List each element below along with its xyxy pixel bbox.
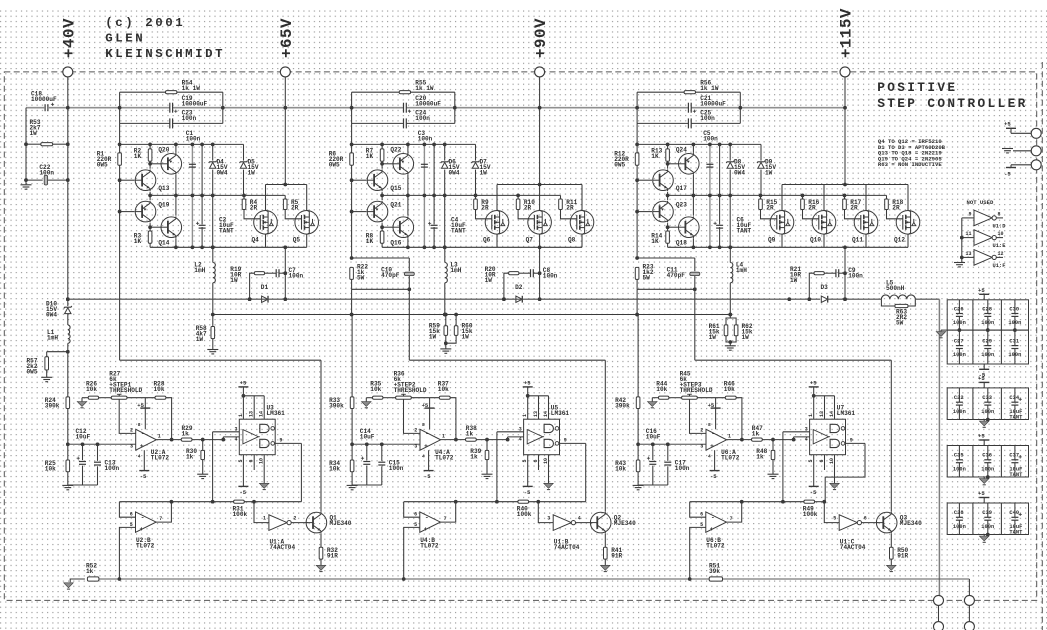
diode D1 <box>261 295 270 303</box>
potentiometer R27 <box>111 396 127 399</box>
svg-text:C32: C32 <box>954 395 964 401</box>
svg-text:STEP CONTROLLER: STEP CONTROLLER <box>877 96 1027 111</box>
mosfet Q10 <box>823 185 825 211</box>
svg-text:10k: 10k <box>615 466 626 473</box>
supply flag +5 <box>983 294 985 300</box>
comparator output pin 9 <box>560 442 586 444</box>
svg-text:2R: 2R <box>291 205 299 212</box>
resistor R20 <box>504 273 509 299</box>
ground <box>81 398 83 402</box>
transistor Q2 <box>590 512 611 533</box>
capacitor C36 <box>987 446 989 460</box>
svg-text:+: + <box>710 443 714 450</box>
svg-text:C36: C36 <box>982 453 992 459</box>
svg-text:TANT: TANT <box>451 228 466 235</box>
svg-text:91R: 91R <box>897 553 908 560</box>
capacitor C6 <box>719 144 721 247</box>
svg-text:D2: D2 <box>515 284 523 291</box>
svg-text:+: + <box>424 443 428 450</box>
svg-text:2: 2 <box>414 428 417 434</box>
svg-text:10k: 10k <box>724 386 735 393</box>
diode D2 <box>515 295 524 303</box>
svg-text:KLEINSCHMIDT: KLEINSCHMIDT <box>105 47 225 61</box>
wire decoupling box sides <box>636 92 638 123</box>
wire hysteresis <box>212 432 214 502</box>
wire op-amp output <box>156 439 181 441</box>
svg-text:+5: +5 <box>978 287 985 294</box>
capacitor C1 <box>191 144 193 247</box>
svg-text:1W: 1W <box>709 334 717 341</box>
svg-text:+: + <box>140 443 144 450</box>
supply flag -5 <box>1010 165 1012 168</box>
resistor R13 <box>667 144 669 149</box>
resistor R11 <box>560 195 562 199</box>
wire analog ground bus <box>638 484 668 486</box>
wire decoupling box sides <box>351 92 353 123</box>
resistor R43 <box>637 444 639 460</box>
capacitor C10 <box>408 258 410 271</box>
svg-text:100n: 100n <box>953 466 966 472</box>
capacitor bank row C26 C28 C30 frame <box>947 300 1028 330</box>
svg-text:1: 1 <box>522 414 528 417</box>
resistor R4 <box>243 195 245 199</box>
svg-text:+5: +5 <box>978 433 985 440</box>
transistor Q14 <box>150 226 161 228</box>
resistor R5 <box>284 195 286 199</box>
wire FET drain drop <box>843 246 847 250</box>
mosfet Q11 <box>865 185 867 211</box>
comparator pin 6 stub <box>824 455 826 470</box>
wire FET source rail <box>782 184 908 186</box>
wire feedback row <box>690 501 804 503</box>
svg-text:Q7: Q7 <box>526 237 534 244</box>
svg-text:C37: C37 <box>1009 453 1019 459</box>
wire gate bottom rail <box>150 246 307 248</box>
resistor R9 <box>475 195 477 199</box>
inverter U1:E <box>962 237 974 239</box>
svg-text:100k: 100k <box>803 511 818 518</box>
wire divider column <box>637 315 639 397</box>
mosfet Q7 <box>539 185 541 211</box>
svg-text:13: 13 <box>533 411 539 417</box>
supply flag +5 <box>144 398 146 430</box>
svg-text:+: + <box>710 526 714 533</box>
wire gate drive rail <box>668 194 887 196</box>
svg-text:+5: +5 <box>810 380 817 387</box>
svg-text:Q4: Q4 <box>252 237 260 244</box>
svg-text:5W: 5W <box>357 275 365 282</box>
terminal +115V <box>840 67 850 77</box>
svg-text:TL072: TL072 <box>435 454 454 461</box>
supply flag -5 <box>143 450 145 470</box>
svg-text:10000uF: 10000uF <box>415 100 441 107</box>
svg-text:100n: 100n <box>39 170 54 177</box>
comparator input pin 3 <box>497 431 524 433</box>
comparator supply pins <box>813 387 815 419</box>
svg-text:100n: 100n <box>105 465 120 472</box>
svg-text:C31: C31 <box>1009 338 1019 344</box>
wire output pin7 <box>440 502 456 522</box>
capacitor C23 <box>120 122 170 124</box>
capacitor C29 <box>987 330 989 345</box>
resistor R21 <box>809 273 814 299</box>
wire C18 ground leg <box>25 108 27 185</box>
svg-text:4: 4 <box>234 437 237 443</box>
capacitor C2 <box>201 144 203 247</box>
svg-text:(c) 2001: (c) 2001 <box>105 16 185 30</box>
ground <box>197 473 208 475</box>
svg-text:100n: 100n <box>289 273 304 280</box>
ground <box>70 579 85 582</box>
svg-text:91R: 91R <box>611 553 622 560</box>
ground <box>983 477 985 479</box>
svg-text:1: 1 <box>238 414 244 417</box>
potentiometer R36 <box>396 396 412 399</box>
capacitor C26 <box>958 300 960 314</box>
svg-text:100n: 100n <box>182 115 197 122</box>
comparator U5 <box>524 419 560 455</box>
resistor R31 <box>234 500 245 503</box>
capacitor C16 <box>652 444 654 460</box>
ground <box>887 565 897 570</box>
svg-text:Q20: Q20 <box>158 147 169 154</box>
svg-text:13: 13 <box>965 251 971 257</box>
capacitor C7 <box>275 269 277 277</box>
svg-text:1: 1 <box>728 433 731 439</box>
capacitor C38 <box>958 503 960 517</box>
comparator internals <box>527 430 543 444</box>
wire analog ground bus <box>352 484 382 486</box>
ground <box>941 329 947 331</box>
wire to inverter <box>824 502 839 523</box>
comparator input pin 3 <box>213 431 240 433</box>
svg-text:TANT: TANT <box>1009 414 1023 420</box>
wire to inverter <box>254 502 269 523</box>
resistor R22 <box>350 256 354 260</box>
svg-text:TL072: TL072 <box>136 542 155 549</box>
capacitor C5 <box>709 144 711 247</box>
inverter U1:F <box>962 256 974 258</box>
svg-text:0W5: 0W5 <box>27 369 38 376</box>
inductor L5 <box>881 295 915 299</box>
op-amp U4:B <box>420 512 441 532</box>
svg-text:6: 6 <box>249 459 255 462</box>
wire R1 drive line <box>119 123 121 360</box>
wire pin5 to bottom rail <box>119 527 135 579</box>
transistor Q15 <box>352 179 367 181</box>
supply flag -5 <box>813 455 815 487</box>
resistor R59 and R60 <box>444 313 448 317</box>
resistor R61 and R62 <box>726 318 736 325</box>
wire drive branch <box>694 289 696 360</box>
svg-text:100k: 100k <box>233 511 248 518</box>
capacitor C25 <box>637 122 688 124</box>
svg-text:Q23: Q23 <box>676 202 687 209</box>
capacitor C17 <box>667 444 669 461</box>
wire divider column <box>67 352 69 397</box>
resistor R53 <box>26 143 41 145</box>
wire feedback row <box>119 501 233 503</box>
svg-text:100n: 100n <box>981 320 994 326</box>
wire decoupling box sides <box>119 92 121 123</box>
svg-text:0W4: 0W4 <box>46 312 57 319</box>
comparator U7 <box>810 419 846 455</box>
wire sense tap <box>351 289 353 314</box>
svg-text:10k: 10k <box>45 466 56 473</box>
svg-text:7: 7 <box>730 516 733 522</box>
capacitor C31 <box>1014 330 1016 345</box>
svg-text:10: 10 <box>998 231 1004 237</box>
svg-text:4: 4 <box>578 516 581 522</box>
wire collector drive <box>320 360 322 511</box>
svg-text:100n: 100n <box>981 409 994 415</box>
svg-text:1W: 1W <box>790 277 798 284</box>
resistor R26 <box>82 397 88 399</box>
comparator U3 <box>239 419 275 455</box>
svg-text:100n: 100n <box>1008 320 1021 326</box>
svg-text:1k: 1k <box>186 454 194 461</box>
svg-text:4: 4 <box>138 454 141 460</box>
ground <box>316 565 326 570</box>
zener D5 <box>243 144 245 195</box>
transistor Q23 <box>637 211 652 213</box>
resistor R25 <box>67 444 69 460</box>
wire sense tap <box>636 289 638 314</box>
capacitor C19 <box>169 103 171 113</box>
svg-text:-5: -5 <box>710 473 717 480</box>
wire supply drop +90V <box>539 77 541 184</box>
inverter U1:C <box>839 515 857 531</box>
inductor L2 <box>211 246 215 250</box>
inverter U1:B <box>553 515 571 531</box>
zener D4 <box>212 144 214 247</box>
svg-text:C39: C39 <box>982 510 992 516</box>
svg-text:6: 6 <box>819 459 825 462</box>
svg-text:THRESHOLD: THRESHOLD <box>680 387 713 394</box>
svg-text:Q9: Q9 <box>768 237 776 244</box>
transistor Q24 <box>668 163 679 165</box>
svg-text:Q13: Q13 <box>158 185 169 192</box>
supply flag +5 <box>983 382 985 388</box>
svg-text:-5: -5 <box>524 489 531 496</box>
resistor R19 <box>250 273 255 299</box>
svg-text:MJE340: MJE340 <box>330 520 352 527</box>
zener D6 <box>444 144 446 247</box>
svg-text:100n: 100n <box>953 320 966 326</box>
svg-text:1: 1 <box>808 414 814 417</box>
resistor R16 <box>802 195 804 199</box>
svg-text:10: 10 <box>829 458 835 464</box>
wire pin6 follower <box>119 502 135 518</box>
svg-text:100n: 100n <box>848 273 863 280</box>
resistor R10 <box>517 195 519 199</box>
resistor R24 <box>66 397 70 409</box>
svg-text:TL072: TL072 <box>706 542 725 549</box>
capacitor C37 <box>1014 446 1016 460</box>
svg-text:TL072: TL072 <box>420 542 439 549</box>
wire supply drop +115V <box>844 77 846 184</box>
resistor R52 <box>87 577 99 581</box>
svg-text:2R: 2R <box>250 205 258 212</box>
supply flag +5 <box>983 440 985 446</box>
svg-text:1k: 1k <box>756 454 764 461</box>
svg-text:1: 1 <box>158 433 161 439</box>
svg-text:Q16: Q16 <box>390 240 401 247</box>
svg-text:100n: 100n <box>981 466 994 472</box>
wire gate drive rail <box>150 194 285 196</box>
svg-text:500nH: 500nH <box>886 285 905 292</box>
svg-text:100n: 100n <box>1008 352 1021 358</box>
svg-text:8: 8 <box>422 422 425 428</box>
svg-text:74ACT04: 74ACT04 <box>554 544 580 551</box>
resistor R46 <box>697 397 725 399</box>
svg-text:6: 6 <box>533 459 539 462</box>
ground <box>347 484 358 486</box>
ground <box>768 473 779 475</box>
svg-text:100n: 100n <box>953 524 966 530</box>
zener D9 <box>760 144 762 195</box>
svg-text:1mH: 1mH <box>194 267 205 274</box>
svg-text:-5: -5 <box>1004 171 1011 178</box>
svg-text:9: 9 <box>279 437 282 443</box>
svg-text:C26: C26 <box>954 306 964 312</box>
capacitor C12 <box>82 444 84 460</box>
svg-text:-5: -5 <box>424 473 431 480</box>
capacitor bank C32 C33 C34 frame <box>947 388 1028 420</box>
zener D8 <box>729 144 731 247</box>
op-amp U6:A <box>706 429 727 450</box>
resistor R15 <box>760 195 762 199</box>
resistor R23 <box>635 256 639 260</box>
terminal OUT <box>934 595 944 605</box>
svg-text:Q21: Q21 <box>390 202 401 209</box>
capacitor C3 <box>423 144 425 247</box>
supply flag -5 <box>714 450 716 470</box>
svg-text:7: 7 <box>159 516 162 522</box>
supply flag -5 <box>527 455 529 487</box>
svg-text:TANT: TANT <box>1009 529 1023 535</box>
wire R12 drive line <box>636 123 638 258</box>
svg-text:8: 8 <box>138 422 141 428</box>
comparator output pin 9 <box>275 442 301 444</box>
resistor R2 <box>149 144 151 149</box>
svg-text:Q11: Q11 <box>852 237 863 244</box>
svg-text:Q18: Q18 <box>676 240 687 247</box>
resistor R49 <box>804 500 815 503</box>
svg-text:10k: 10k <box>154 386 165 393</box>
svg-text:+: + <box>424 526 428 533</box>
svg-text:1: 1 <box>442 433 445 439</box>
resistor R39 <box>486 440 488 451</box>
svg-text:+5: +5 <box>708 402 715 409</box>
wire pin6 follower <box>404 502 420 518</box>
capacitor C15 <box>381 444 383 461</box>
svg-text:1W: 1W <box>30 130 38 137</box>
junction on rail at +40V <box>66 106 70 110</box>
wire collector drive <box>890 360 892 511</box>
inductor L3 <box>443 246 447 250</box>
svg-text:390k: 390k <box>45 403 60 410</box>
svg-text:12: 12 <box>998 251 1004 257</box>
svg-text:10000uF: 10000uF <box>31 96 57 103</box>
svg-text:+5: +5 <box>240 380 247 387</box>
svg-text:1k: 1k <box>86 568 94 575</box>
ground <box>207 349 218 351</box>
svg-text:0W5: 0W5 <box>329 162 340 169</box>
svg-text:Q17: Q17 <box>676 185 687 192</box>
svg-text:-5: -5 <box>239 489 246 496</box>
svg-text:5: 5 <box>238 459 244 462</box>
svg-text:10k: 10k <box>656 386 667 393</box>
svg-text:+5: +5 <box>422 402 429 409</box>
svg-text:3: 3 <box>805 426 808 432</box>
svg-text:1k: 1k <box>752 431 760 438</box>
zener D7 <box>475 144 477 195</box>
svg-text:470pF: 470pF <box>381 272 400 279</box>
inductor L4 <box>729 246 733 250</box>
svg-text:10k: 10k <box>370 386 381 393</box>
svg-text:0W5: 0W5 <box>97 162 108 169</box>
svg-text:91R: 91R <box>327 553 338 560</box>
wire pot wiper <box>404 399 421 433</box>
capacitor C34 <box>1014 388 1016 402</box>
svg-text:POSITIVE: POSITIVE <box>877 80 957 95</box>
wire gate-top rail <box>120 143 244 145</box>
inverter U1:A <box>269 515 287 531</box>
resistor R12 <box>635 153 639 165</box>
svg-text:100n: 100n <box>186 135 201 142</box>
svg-text:C34: C34 <box>1009 395 1019 401</box>
svg-text:-: - <box>711 430 715 437</box>
svg-text:TL072: TL072 <box>721 454 740 461</box>
wire output to terminal <box>915 298 939 300</box>
capacitor C20 <box>403 103 405 113</box>
svg-text:+40V: +40V <box>60 18 78 58</box>
potentiometer R45 <box>682 396 698 399</box>
transistor Q19 <box>120 211 135 213</box>
wire inverter input bus <box>961 218 963 258</box>
capacitor C9 <box>835 269 837 277</box>
capacitor C21 <box>687 103 689 113</box>
resistor R37 <box>411 397 439 399</box>
wire gate drive rail <box>382 194 560 196</box>
wire output pin7 <box>726 502 742 522</box>
transistor Q17 <box>637 179 652 181</box>
svg-text:GLEN: GLEN <box>105 32 145 46</box>
diode D3 <box>821 295 830 303</box>
ground <box>62 484 73 486</box>
wire to inverter <box>538 502 553 523</box>
svg-text:-5: -5 <box>140 473 147 480</box>
svg-text:7: 7 <box>444 516 447 522</box>
svg-text:THRESHOLD: THRESHOLD <box>394 387 427 394</box>
svg-text:-: - <box>425 430 429 437</box>
svg-text:1k 1W: 1k 1W <box>182 85 201 92</box>
svg-text:5: 5 <box>522 459 528 462</box>
svg-text:D1: D1 <box>261 284 269 291</box>
svg-text:+: + <box>140 526 144 533</box>
svg-text:1K: 1K <box>651 238 659 245</box>
svg-text:8: 8 <box>998 211 1001 217</box>
terminal +5 <box>1031 128 1041 138</box>
svg-text:3: 3 <box>547 516 550 522</box>
svg-text:3: 3 <box>414 443 417 449</box>
comparator supply pins <box>242 387 244 419</box>
resistor R7 <box>381 144 383 149</box>
capacitor bank C35 C36 C37 frame <box>947 446 1028 478</box>
svg-text:2R: 2R <box>892 205 900 212</box>
svg-text:Q8: Q8 <box>568 237 576 244</box>
